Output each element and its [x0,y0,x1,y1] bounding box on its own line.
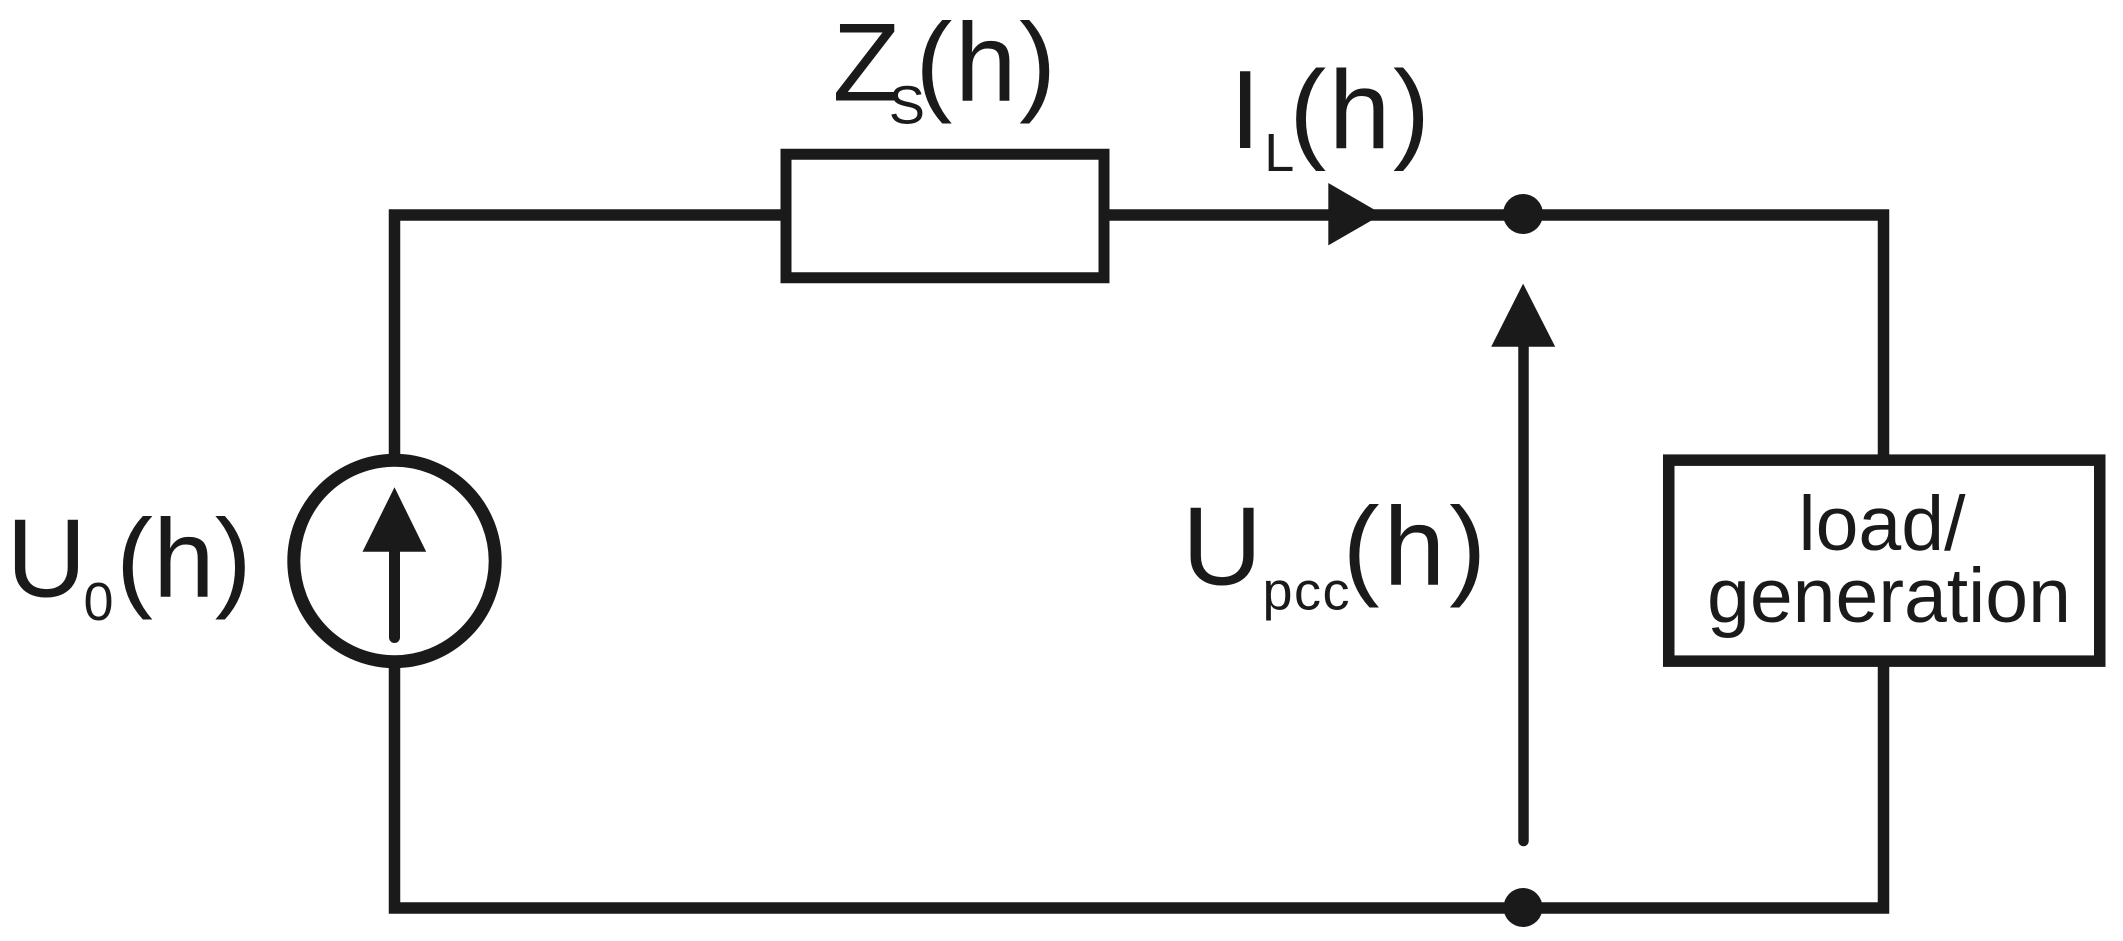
wire left segment [389,210,401,914]
node PCC top junction dot [1503,194,1543,234]
label IL(h) [1230,48,1433,183]
load/generation label [1707,481,2071,639]
label ZS(h) [833,0,1059,135]
svg-text:(h): (h) [1343,485,1491,609]
current IL arrowhead [1328,183,1382,245]
wire bottom segment [389,902,1889,914]
svg-text:pcc: pcc [1263,562,1352,622]
voltage source U0 circle [294,460,495,661]
svg-text:(h): (h) [915,0,1058,124]
wire top segment [389,209,1889,221]
resistor ZS box [786,154,1104,278]
svg-text:U: U [1182,485,1262,609]
svg-text:(h): (h) [1289,48,1432,172]
svg-text:generation: generation [1707,553,2071,639]
label U0(h) [6,497,251,633]
svg-text:U: U [6,497,86,621]
voltage source U0 arrow [363,487,427,637]
label Upcc(h) [1182,485,1490,622]
voltage Upcc arrow [1491,284,1555,841]
load/generation box [1669,460,2100,661]
node bottom junction dot [1504,888,1543,927]
svg-text:I: I [1230,48,1261,172]
svg-text:(h): (h) [116,497,252,621]
svg-text:0: 0 [84,572,114,632]
wire right segment [1878,210,1890,914]
